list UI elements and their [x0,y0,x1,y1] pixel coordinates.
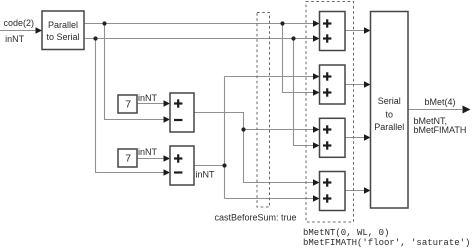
svg-text:Serial: Serial [378,96,401,106]
svg-text:Parallel: Parallel [374,122,404,132]
svg-text:bMetFIMATH('floor', 'saturate': bMetFIMATH('floor', 'saturate') [303,238,470,248]
svg-text:inNT: inNT [5,34,25,44]
svg-text:bMetNT(0, WL, 0): bMetNT(0, WL, 0) [303,228,389,238]
svg-text:7: 7 [125,99,131,111]
svg-text:inNT: inNT [138,93,158,103]
svg-text:inNT: inNT [138,147,158,157]
svg-text:bMet(4): bMet(4) [425,97,456,107]
svg-text:bMetFIMATH: bMetFIMATH [414,125,467,135]
svg-text:to: to [385,109,393,119]
svg-text:castBeforeSum: true: castBeforeSum: true [215,213,297,223]
svg-text:inNT: inNT [196,170,216,180]
svg-text:code(2): code(2) [4,18,35,28]
svg-text:to Serial: to Serial [46,32,79,42]
svg-text:7: 7 [125,153,131,165]
svg-text:Parallel: Parallel [48,20,78,30]
